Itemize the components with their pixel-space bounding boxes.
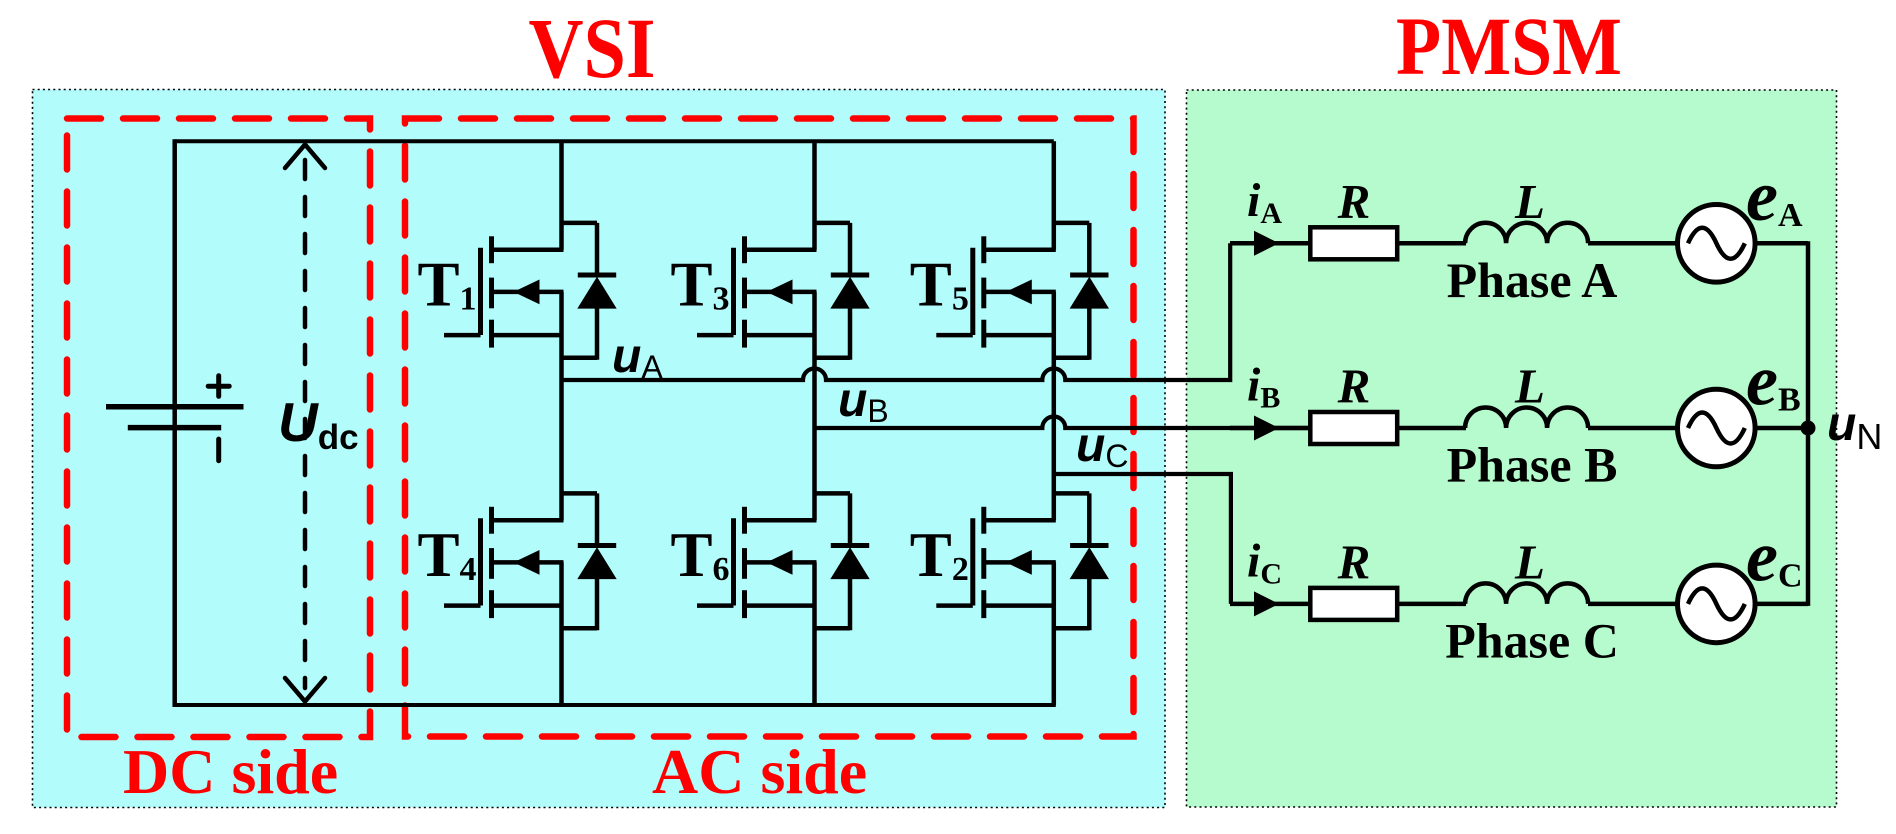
- svg-text:VSI: VSI: [529, 0, 656, 96]
- svg-text:R: R: [1337, 535, 1371, 590]
- svg-text:AC side: AC side: [652, 736, 867, 807]
- svg-text:L: L: [1514, 359, 1545, 414]
- svg-text:R: R: [1337, 359, 1371, 414]
- svg-text:R: R: [1337, 174, 1371, 229]
- svg-text:DC side: DC side: [123, 736, 338, 807]
- svg-text:Phase C: Phase C: [1445, 613, 1619, 669]
- svg-text:L: L: [1514, 174, 1545, 229]
- svg-text:uN: uN: [1827, 398, 1882, 457]
- svg-text:Phase A: Phase A: [1447, 252, 1618, 308]
- svg-text:PMSM: PMSM: [1396, 0, 1622, 92]
- svg-text:Phase B: Phase B: [1447, 437, 1618, 493]
- svg-text:L: L: [1514, 535, 1545, 590]
